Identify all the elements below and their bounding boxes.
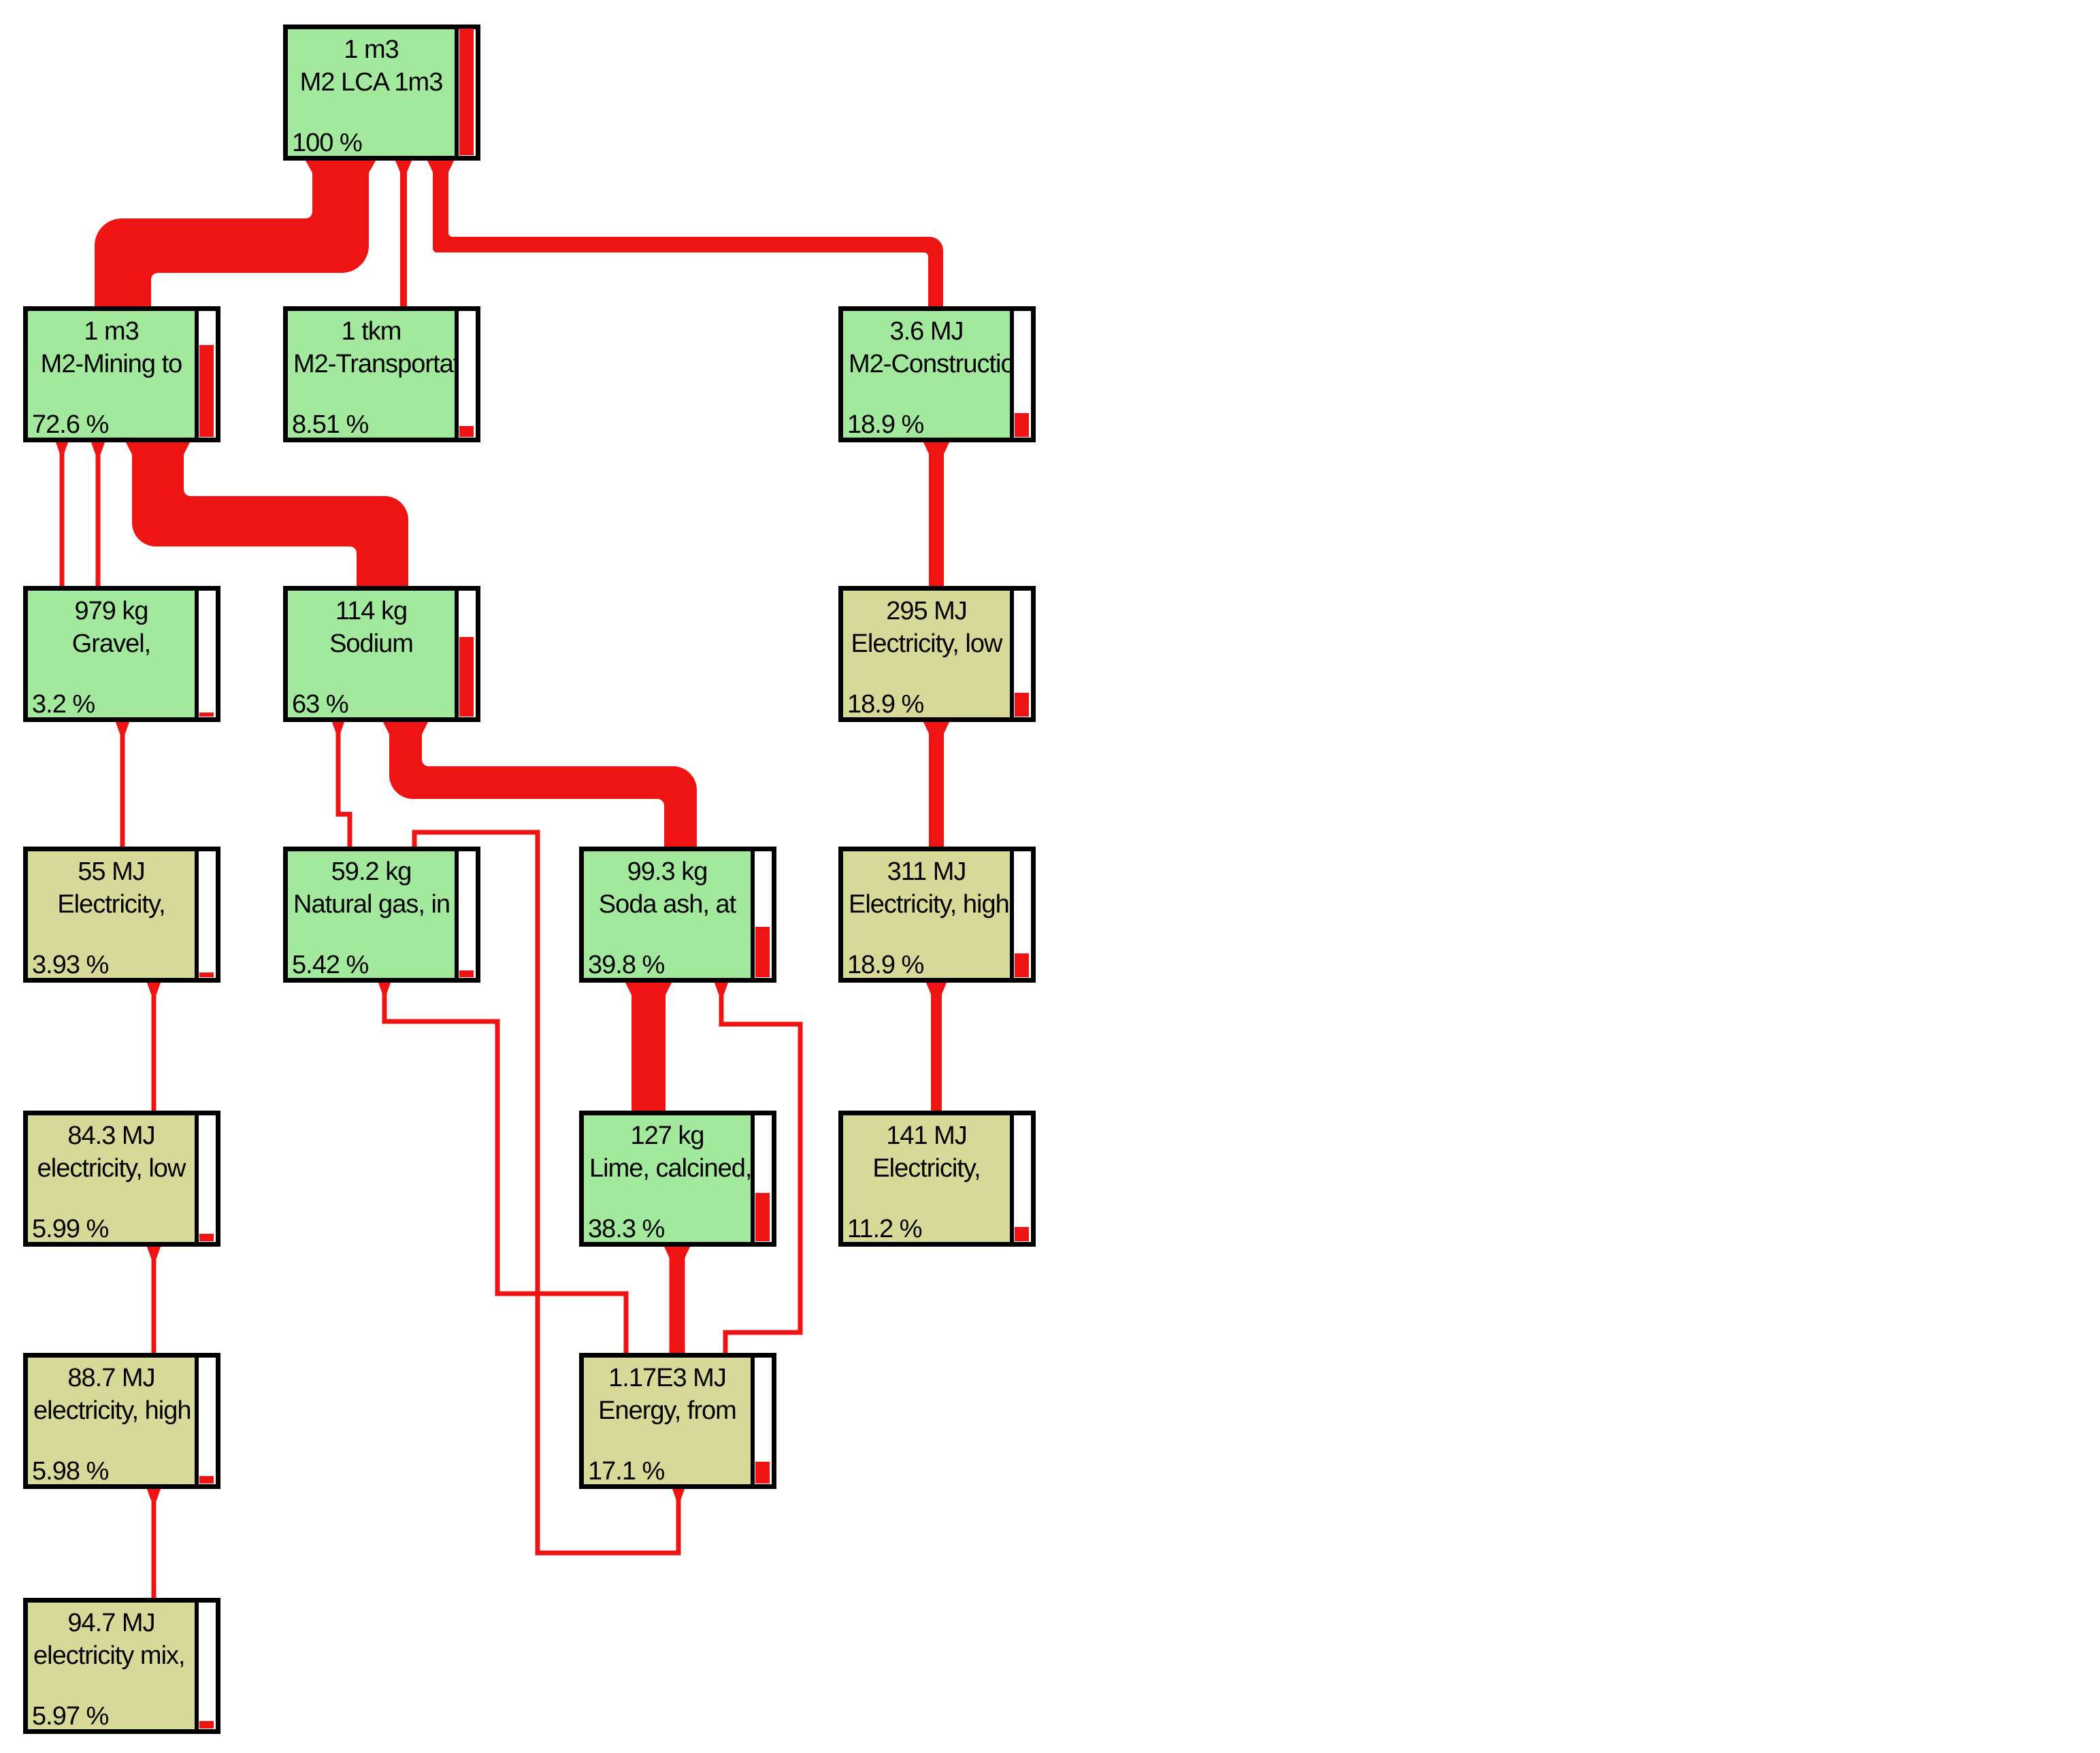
flow: Natural gas -> Energy, from (thin loop) — [412, 832, 417, 847]
process box e311: 311 MJ Electricity, high 18.9 % — [838, 847, 1036, 983]
flow band: M2-Construction -> M2 LCA 1m3 (18.9%) — [433, 161, 943, 306]
process box e141: 141 MJ Electricity, 11.2 % — [838, 1111, 1036, 1247]
flow: Energy, from -> Natural gas (thin, left detour) — [624, 1294, 629, 1353]
process box lime: 127 kg Lime, calcined, 38.3 % — [579, 1111, 776, 1247]
flow band: Lime, calcined -> Soda ash (38.3%) — [631, 983, 666, 1111]
flow: Energy, from -> Lime (17.1%) — [670, 1247, 685, 1353]
flow: Energy, from -> Soda ash (thin, right detour) — [723, 1332, 728, 1353]
process box energy: 1.17E3 MJ Energy, from 17.1 % — [579, 1353, 776, 1489]
flow: Natural gas -> Sodium (5.42%) — [348, 817, 352, 847]
flow band: Sodium -> M2-Mining (63%) — [132, 442, 408, 586]
process box natgas: 59.2 kg Natural gas, in 5.42 % — [283, 847, 480, 983]
flow: Electricity -> Electricity,high (11.2%) — [931, 983, 942, 1111]
process box mining: 1 m3 M2-Mining to 72.6 % — [23, 306, 220, 442]
flow: electricity mix -> electricity,high (5.97%) — [152, 1489, 157, 1598]
flow: Gravel -> M2-Mining (line 1) — [60, 442, 65, 586]
flow: M2-Transportation -> M2 LCA 1m3 (8.51%) — [400, 161, 407, 306]
process box sodium: 114 kg Sodium 63 % — [283, 586, 480, 722]
flow: electricity,high -> electricity,low (5.98%) — [152, 1247, 157, 1353]
flow: 55MJ Electricity -> Gravel (3.93%) — [120, 722, 125, 847]
flow band: M2-Mining to -> M2 LCA 1m3 (72.6%) — [95, 161, 369, 306]
process box e295: 295 MJ Electricity, low 18.9 % — [838, 586, 1036, 722]
process box e55: 55 MJ Electricity, 3.93 % — [23, 847, 220, 983]
flow: Electricity,high -> Electricity,low (18.9%) — [929, 722, 944, 847]
process box lca: 1 m3 M2 LCA 1m3 100 % — [283, 24, 480, 161]
process box e843: 84.3 MJ electricity, low 5.99 % — [23, 1111, 220, 1247]
process box e947: 94.7 MJ electricity mix, 5.97 % — [23, 1598, 220, 1734]
process box constr: 3.6 MJ M2-Constructio 18.9 % — [838, 306, 1036, 442]
process box soda: 99.3 kg Soda ash, at 39.8 % — [579, 847, 776, 983]
flow band: Soda ash -> Sodium (39.8%) — [389, 722, 697, 847]
process box e887: 88.7 MJ electricity, high 5.98 % — [23, 1353, 220, 1489]
process box transp: 1 tkm M2-Transportat 8.51 % — [283, 306, 480, 442]
flow: Gravel -> M2-Mining (line 2) — [96, 442, 101, 586]
flow: electricity,low -> 55MJ Electricity (5.99%) — [152, 983, 157, 1111]
flow: Electricity,low -> M2-Construction (18.9%) — [929, 442, 944, 586]
process box gravel: 979 kg Gravel, 3.2 % — [23, 586, 220, 722]
